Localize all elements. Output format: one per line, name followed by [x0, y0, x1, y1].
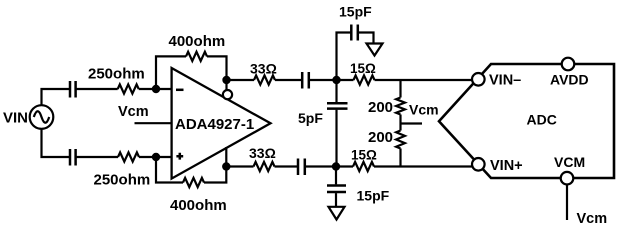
svg-text:400ohm: 400ohm — [169, 33, 226, 50]
svg-text:15Ω: 15Ω — [350, 61, 376, 76]
svg-text:AVDD: AVDD — [550, 71, 589, 87]
svg-text:5pF: 5pF — [298, 110, 323, 126]
svg-text:200: 200 — [368, 99, 393, 116]
svg-text:VIN+: VIN+ — [490, 158, 523, 174]
svg-text:400ohm: 400ohm — [170, 197, 227, 214]
svg-text:15pF: 15pF — [339, 3, 372, 19]
svg-text:ADA4927-1: ADA4927-1 — [175, 116, 254, 133]
svg-text:Vcm: Vcm — [409, 102, 439, 118]
svg-text:250ohm: 250ohm — [94, 172, 151, 189]
svg-text:VIN–: VIN– — [489, 72, 521, 88]
svg-text:33Ω: 33Ω — [249, 145, 276, 161]
svg-text:15Ω: 15Ω — [351, 147, 377, 162]
svg-text:Vcm: Vcm — [577, 211, 608, 227]
svg-text:ADC: ADC — [527, 112, 557, 128]
svg-text:VCM: VCM — [554, 154, 585, 170]
svg-text:33Ω: 33Ω — [250, 61, 277, 77]
svg-text:VIN: VIN — [3, 110, 28, 127]
svg-text:250ohm: 250ohm — [88, 65, 145, 82]
svg-text:15pF: 15pF — [357, 188, 390, 204]
svg-text:200: 200 — [368, 129, 393, 146]
svg-text:Vcm: Vcm — [118, 104, 149, 120]
